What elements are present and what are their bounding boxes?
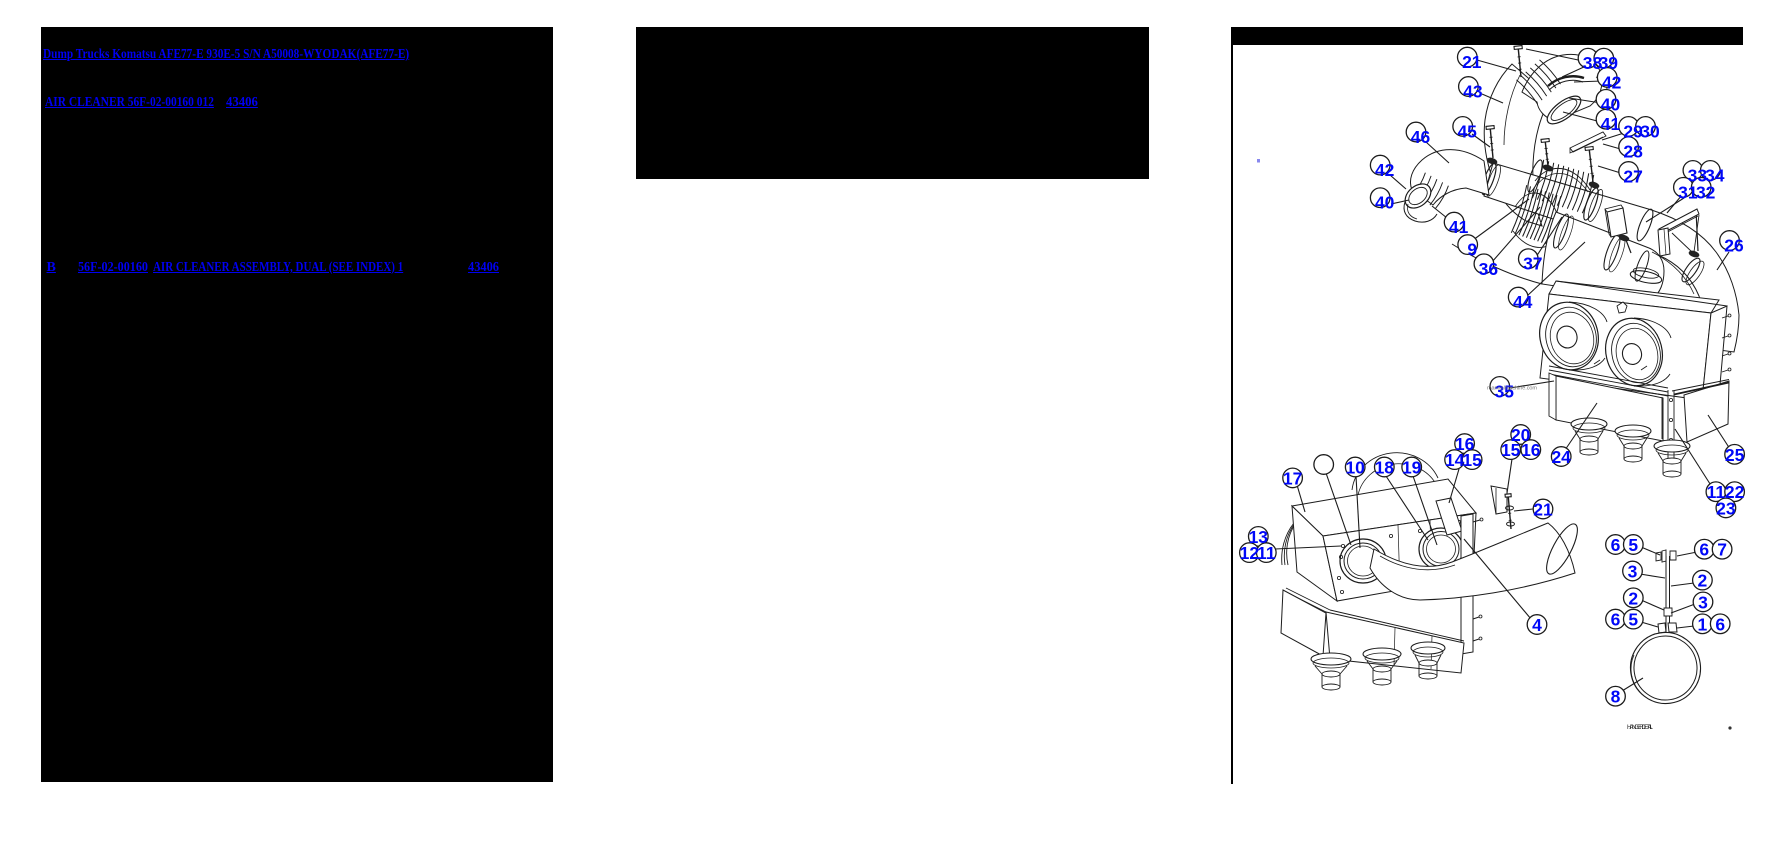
svg-text:8: 8 [1611,687,1621,707]
svg-text:44: 44 [1513,292,1533,312]
svg-text:HANGER DETAIL: HANGER DETAIL [1627,724,1654,731]
svg-text:40: 40 [1601,94,1621,114]
svg-text:43: 43 [1463,82,1483,102]
svg-text:18: 18 [1375,458,1395,478]
svg-text:16: 16 [1521,440,1541,460]
svg-text:41: 41 [1601,114,1621,134]
svg-text:30: 30 [1640,121,1660,141]
svg-text:17: 17 [1283,468,1302,488]
svg-text:31: 31 [1678,182,1698,202]
svg-text:42: 42 [1375,160,1395,180]
svg-text:3: 3 [1698,592,1708,612]
svg-text:6: 6 [1699,540,1709,560]
svg-text:28: 28 [1623,142,1643,162]
svg-text:19: 19 [1402,458,1422,478]
svg-text:4: 4 [1532,615,1542,635]
svg-text:1: 1 [1698,614,1708,634]
svg-text:10: 10 [1345,458,1365,478]
svg-text:manualmachine.com: manualmachine.com [1487,386,1537,392]
svg-text:11: 11 [1257,543,1276,563]
svg-text:21: 21 [1462,52,1482,72]
svg-text:41: 41 [1449,217,1469,237]
svg-text:25: 25 [1725,445,1745,465]
svg-text:37: 37 [1523,254,1542,274]
svg-text:27: 27 [1623,167,1642,187]
svg-text:9: 9 [1467,240,1477,260]
svg-text:6: 6 [1611,535,1621,555]
svg-text:6: 6 [1715,614,1725,634]
svg-text:40: 40 [1375,193,1395,213]
svg-text:7: 7 [1717,540,1727,560]
svg-text:6: 6 [1611,610,1621,630]
svg-text:5: 5 [1628,610,1638,630]
svg-text:46: 46 [1411,127,1431,147]
svg-text:2: 2 [1698,571,1708,591]
svg-text:2: 2 [1628,588,1638,608]
svg-text:23: 23 [1716,498,1736,518]
svg-text:21: 21 [1533,500,1553,520]
svg-text:39: 39 [1599,53,1619,73]
svg-text:3: 3 [1628,562,1638,582]
svg-text:24: 24 [1551,447,1571,467]
svg-text:42: 42 [1602,72,1622,92]
svg-text:36: 36 [1479,259,1499,279]
svg-text:45: 45 [1457,121,1477,141]
svg-text:15: 15 [1462,450,1482,470]
svg-text:15: 15 [1501,440,1521,460]
svg-text:32: 32 [1696,182,1716,202]
svg-text:5: 5 [1628,535,1638,555]
svg-text:26: 26 [1724,236,1744,256]
